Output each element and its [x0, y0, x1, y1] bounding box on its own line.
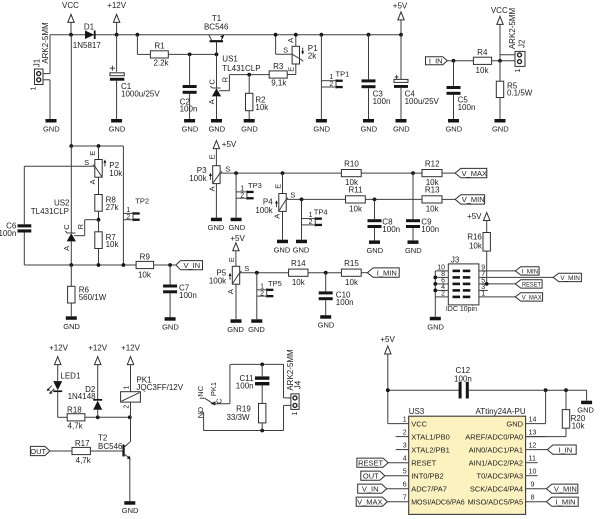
US3 pin 14 GND [506, 417, 536, 429]
junction C5 [452, 59, 456, 63]
ground (T2) [122, 501, 139, 515]
svg-text:1000u/25V: 1000u/25V [121, 89, 160, 98]
svg-text:GND: GND [162, 323, 179, 332]
svg-text:A: A [273, 214, 282, 219]
US3 pin 1 VCC [388, 417, 428, 429]
svg-text:C: C [215, 398, 224, 404]
svg-text:TL431CLP: TL431CLP [31, 207, 69, 216]
svg-text:GND: GND [393, 125, 410, 134]
shunt regulator US2 TL431CLP [31, 146, 99, 265]
resistor R12 10k [422, 159, 455, 187]
svg-text:ARK2-5MM: ARK2-5MM [286, 349, 295, 391]
svg-text:E: E [286, 67, 295, 72]
test point TP4 [302, 199, 328, 239]
wire snubber bottom rail [204, 430, 284, 432]
svg-text:1: 1 [126, 207, 130, 214]
svg-text:PK1: PK1 [209, 382, 218, 396]
ground (C2) [182, 119, 199, 134]
svg-text:100n: 100n [458, 103, 476, 112]
+5V power symbol (P3) [213, 140, 237, 166]
junction TP2 bottom [122, 263, 126, 267]
capacitor C4 100u/25V [394, 35, 440, 119]
potentiometer P3 100k [189, 154, 230, 217]
svg-text:BC546: BC546 [204, 23, 229, 32]
US3 pin 12 AIN0/ADC1/PA1 + I_IN flag [469, 443, 577, 455]
node OUT flag [30, 446, 72, 455]
wire J3 ground bus [434, 271, 436, 317]
svg-text:GND: GND [492, 125, 509, 134]
svg-text:I_MIN: I_MIN [556, 498, 576, 507]
svg-text:AIN0/ADC1/PA1: AIN0/ADC1/PA1 [469, 446, 523, 455]
svg-text:J4: J4 [294, 380, 303, 389]
svg-text:GND: GND [506, 420, 523, 429]
svg-text:A: A [226, 289, 235, 294]
svg-text:10k: 10k [572, 421, 586, 430]
svg-text:A: A [207, 99, 216, 104]
junction C10 [324, 271, 328, 275]
ground (C9) [405, 240, 422, 255]
svg-text:V_MAX: V_MAX [522, 294, 542, 301]
svg-text:100u/25V: 100u/25V [405, 97, 440, 106]
svg-text:6: 6 [403, 482, 407, 489]
junction pin14 wire [544, 388, 548, 392]
ground (J1) [43, 119, 60, 134]
ground (TP3) [228, 218, 245, 233]
VCC power symbol (right) [491, 6, 508, 61]
potentiometer P1 2k [276, 35, 319, 72]
svg-text:TP3: TP3 [248, 181, 262, 190]
svg-text:560/1W: 560/1W [79, 293, 107, 302]
svg-text:10k: 10k [109, 169, 123, 178]
node V_MIN flag (J3) [553, 273, 581, 282]
junction R10/R12/C9 [411, 171, 415, 175]
resistor R2 10k [246, 75, 270, 119]
junction C3 [367, 33, 371, 37]
relay contact PK1 [196, 364, 230, 430]
+5V power symbol (US3) [380, 335, 395, 423]
svg-text:GND: GND [109, 125, 126, 134]
svg-text:1: 1 [403, 417, 407, 424]
ground (P5) [227, 319, 244, 334]
+5V power symbol (R16) [467, 212, 490, 232]
svg-text:T0/ADC3/PA3: T0/ADC3/PA3 [477, 472, 524, 481]
IC US3 ATtiny24A-PU [409, 407, 526, 514]
svg-text:JQC3FF/12V: JQC3FF/12V [136, 383, 183, 392]
svg-text:2: 2 [124, 405, 131, 409]
node V_MIN flag (top) [455, 195, 485, 205]
svg-text:1: 1 [481, 290, 485, 297]
VCC power symbol [62, 1, 79, 35]
svg-text:R11: R11 [348, 186, 363, 195]
ground (R2) [241, 119, 258, 134]
svg-text:A: A [62, 246, 71, 251]
ground (P3) [208, 218, 225, 233]
svg-text:10k: 10k [255, 103, 269, 112]
svg-text:OUT: OUT [30, 447, 46, 456]
svg-text:TP5: TP5 [268, 279, 282, 288]
svg-text:10k: 10k [292, 278, 306, 287]
capacitor C6 100n [0, 166, 31, 265]
wire y146 [71, 145, 123, 147]
svg-text:NO: NO [196, 407, 205, 418]
svg-text:ATtiny24A-PU: ATtiny24A-PU [476, 407, 526, 416]
test point TP2 [123, 197, 149, 222]
resistor R17 4,7k [72, 439, 122, 465]
capacitor C8 100n [368, 199, 401, 240]
connector J2 ARK2-5MM [500, 7, 526, 72]
svg-text:+12V: +12V [49, 344, 69, 353]
potentiometer P4 100k [255, 173, 295, 240]
junction R8/R7/Ref [97, 218, 101, 222]
svg-text:100n: 100n [236, 381, 254, 390]
wire VCC trunk down [70, 35, 72, 146]
svg-text:1: 1 [240, 185, 244, 192]
junction D2 anode [96, 415, 100, 419]
svg-text:XTAL1/PB0: XTAL1/PB0 [411, 433, 450, 442]
junction bus pin8 [433, 276, 437, 280]
junction C8 [373, 198, 377, 202]
svg-text:LED1: LED1 [60, 372, 81, 381]
+12V power symbol (PK1) [121, 344, 141, 392]
junction TP4 [300, 198, 304, 202]
svg-text:I_IN: I_IN [558, 445, 572, 454]
LED LED1 [47, 372, 81, 418]
+12V power symbol (LED1) [49, 344, 69, 381]
transistor T2 BC546 [98, 434, 131, 502]
US3 pin 2 XTAL1/PB0 [396, 430, 450, 442]
svg-text:10k: 10k [138, 270, 152, 279]
resistor R11 10k [346, 186, 423, 214]
wire J4 top feed [284, 364, 293, 398]
US3 pin 5 INT0/PB2 + OUT flag [361, 469, 444, 481]
junction PK1/T2 collector [128, 415, 132, 419]
relay coil PK1 JQC3FF/12V [121, 376, 184, 443]
+12V power symbol (D2) [88, 344, 108, 399]
ground (TP1) [313, 119, 330, 134]
wire TP2 trunk [122, 146, 124, 265]
junction R2 top [247, 73, 251, 77]
svg-text:GND: GND [208, 125, 225, 134]
svg-text:+5V: +5V [380, 335, 395, 344]
svg-text:8: 8 [531, 495, 535, 502]
junction TP1 [320, 33, 324, 37]
svg-text:C: C [62, 224, 71, 230]
ground (C4) [393, 119, 410, 134]
svg-text:GND: GND [228, 223, 245, 232]
svg-text:1N5817: 1N5817 [73, 41, 102, 50]
junction trunk/y146 [69, 144, 73, 148]
svg-text:100n: 100n [180, 105, 198, 114]
node I_IN flag (top) [426, 57, 474, 66]
svg-text:100n: 100n [336, 298, 354, 307]
ground (J3) [427, 317, 444, 332]
svg-text:1: 1 [515, 68, 522, 72]
potentiometer P2 10k [24, 146, 123, 185]
svg-text:R1: R1 [154, 42, 165, 51]
svg-text:13: 13 [529, 430, 537, 437]
svg-text:V_MAX: V_MAX [462, 169, 487, 178]
ground (TP5) [248, 319, 265, 334]
svg-text:C: C [207, 79, 216, 85]
junction bus pin6 [433, 282, 437, 286]
svg-text:BC546: BC546 [98, 442, 123, 451]
svg-text:+5V: +5V [393, 2, 408, 11]
test point TP3 [236, 173, 262, 218]
svg-text:2k: 2k [308, 52, 317, 61]
svg-text:100n: 100n [179, 291, 197, 300]
svg-text:ARK2-5MM: ARK2-5MM [41, 22, 50, 64]
ground (C3) [360, 119, 377, 134]
resistor R18 4,7k [67, 406, 130, 431]
capacitor C10 100n [319, 273, 354, 316]
svg-text:10k: 10k [469, 241, 483, 250]
svg-text:2: 2 [441, 290, 445, 297]
US3 pin 11 AIN1/ADC2/PA2 [469, 456, 538, 468]
US3 pin 10 T0/ADC3/PA3 [477, 469, 538, 481]
capacitor C3 100n [362, 35, 391, 119]
resistor R6 560/1W [68, 265, 107, 316]
svg-text:MOSI/ADC6/PA6: MOSI/ADC6/PA6 [411, 498, 465, 507]
svg-text:R16: R16 [467, 232, 482, 241]
capacitor C7 100n [163, 265, 197, 317]
svg-text:TP2: TP2 [135, 197, 149, 206]
resistor R20 10k [526, 390, 586, 436]
resistor R19 33/3W [226, 403, 265, 430]
svg-text:E: E [88, 151, 97, 156]
svg-text:MISO/ADC5/PA5: MISO/ADC5/PA5 [468, 498, 524, 507]
svg-text:R4: R4 [477, 48, 488, 57]
node V_MAX flag (top) [455, 168, 487, 178]
resistor R5 0,1/5W [496, 61, 532, 119]
ground (TP4) [293, 240, 310, 255]
junction C7 / V_IN [168, 263, 172, 267]
svg-text:+5V: +5V [467, 212, 482, 221]
svg-text:GND: GND [274, 245, 291, 254]
connector J4 ARK2-5MM [286, 349, 303, 415]
resistor R10 10k [341, 159, 422, 187]
svg-text:R19: R19 [236, 404, 251, 413]
resistor R15 10k [341, 259, 367, 287]
diode D2 1N4148 [68, 385, 103, 417]
svg-text:IDC 10pin: IDC 10pin [446, 306, 477, 313]
svg-text:RESET: RESET [522, 281, 541, 288]
resistor R3 9,1k [269, 62, 296, 88]
svg-text:100n: 100n [421, 225, 439, 234]
junction +5V col [386, 388, 390, 392]
node RESET flag (J3) [515, 280, 542, 289]
svg-text:R18: R18 [67, 406, 82, 415]
resistor R4 10k [473, 48, 516, 75]
potentiometer P5 100k [209, 257, 249, 319]
svg-text:R9: R9 [140, 252, 151, 261]
svg-text:ARK2-5MM: ARK2-5MM [508, 7, 517, 49]
svg-text:S: S [290, 191, 295, 200]
svg-text:1: 1 [309, 212, 313, 219]
svg-text:I_MIN: I_MIN [377, 268, 397, 277]
svg-text:J2: J2 [517, 39, 526, 48]
junction TP5 [255, 271, 259, 275]
junction P1 S [274, 33, 278, 37]
svg-text:GND: GND [182, 125, 199, 134]
svg-text:RESET: RESET [358, 459, 383, 468]
wire main +12V rail [50, 34, 401, 36]
svg-text:V_MIN: V_MIN [462, 195, 485, 204]
svg-text:1: 1 [30, 86, 37, 90]
svg-text:I_IN: I_IN [429, 57, 443, 66]
svg-text:11: 11 [529, 456, 536, 463]
ground (C1) [109, 119, 126, 134]
diode D1 [73, 23, 102, 51]
svg-text:+12V: +12V [107, 1, 127, 10]
connector J3 IDC 10pin [446, 255, 479, 313]
svg-text:A: A [208, 186, 217, 191]
svg-text:INT0/PB2: INT0/PB2 [411, 472, 444, 481]
svg-text:33/3W: 33/3W [226, 413, 250, 422]
svg-text:US3: US3 [409, 407, 425, 416]
test point TP5 [257, 273, 282, 320]
svg-text:GND: GND [366, 246, 383, 255]
junction +12V rail [115, 33, 119, 37]
junction US2 anode / R6 [69, 263, 73, 267]
svg-text:10k: 10k [476, 66, 490, 75]
svg-text:E: E [207, 154, 216, 159]
svg-text:GND: GND [248, 325, 265, 334]
ground (C10) [318, 315, 335, 330]
svg-text:OUT: OUT [363, 472, 379, 481]
svg-text:R15: R15 [344, 259, 359, 268]
svg-text:E: E [273, 184, 282, 189]
wire J4 bottom feed [284, 405, 293, 430]
wire +5V rail to C12 [388, 389, 459, 391]
svg-text:RESET: RESET [411, 459, 436, 468]
svg-text:+12V: +12V [88, 344, 108, 353]
resistor R14 10k [289, 259, 342, 287]
svg-text:R14: R14 [291, 259, 306, 268]
ground (C5) [445, 119, 462, 134]
svg-text:AREF/ADC0/PA0: AREF/ADC0/PA0 [465, 433, 523, 442]
svg-text:S: S [244, 264, 249, 273]
svg-text:GND: GND [293, 245, 310, 254]
junction P1 A [294, 33, 298, 37]
+5V power symbol (P5) [230, 234, 245, 266]
svg-text:VCC: VCC [62, 1, 79, 10]
+12V power symbol [107, 1, 127, 35]
junction C11 top [260, 363, 264, 367]
svg-text:2: 2 [403, 430, 407, 437]
svg-text:2: 2 [260, 290, 264, 297]
svg-text:7: 7 [403, 495, 407, 502]
svg-text:V_MAX: V_MAX [357, 498, 382, 507]
svg-text:5: 5 [403, 469, 407, 476]
svg-text:1N4148: 1N4148 [68, 392, 97, 401]
svg-text:100n: 100n [454, 374, 472, 383]
US3 pin 4 RESET + flag [357, 456, 437, 468]
capacitor C11 100n [236, 364, 270, 403]
svg-text:XTAL2/PB1: XTAL2/PB1 [411, 446, 450, 455]
svg-text:GND: GND [405, 246, 422, 255]
junction VCC rail [69, 33, 73, 37]
ground (C8) [366, 240, 383, 255]
junction R16/RESET line [485, 282, 489, 286]
svg-text:TP4: TP4 [314, 208, 328, 217]
svg-text:2.2k: 2.2k [153, 58, 169, 67]
svg-text:2: 2 [240, 192, 244, 199]
US3 pin 9 SCK/ADC4/PA4 + V_MIN flag [470, 482, 578, 494]
capacitor C1 1000u/25V [110, 35, 160, 119]
svg-text:TL431CLP: TL431CLP [222, 64, 260, 73]
svg-text:R12: R12 [425, 159, 440, 168]
transistor T1 BC546 [204, 14, 229, 55]
junction R1 branch [136, 33, 140, 37]
svg-text:100n: 100n [373, 97, 391, 106]
svg-text:12: 12 [529, 443, 537, 450]
junction P4 E [281, 171, 285, 175]
svg-text:S: S [225, 164, 230, 173]
svg-text:R10: R10 [344, 159, 359, 168]
svg-text:3: 3 [403, 443, 407, 450]
capacitor C12 100n [454, 366, 587, 398]
svg-text:R17: R17 [75, 439, 90, 448]
node V_IN flag [176, 261, 203, 270]
svg-text:1: 1 [292, 411, 299, 415]
svg-text:+5V: +5V [230, 234, 245, 243]
node V_MAX flag (J3) [515, 293, 542, 302]
svg-text:NC: NC [196, 385, 205, 396]
svg-text:4: 4 [403, 456, 407, 463]
svg-text:1: 1 [329, 74, 333, 81]
svg-text:27k: 27k [106, 203, 120, 212]
svg-text:10k: 10k [106, 240, 120, 249]
svg-text:V_IN: V_IN [183, 261, 200, 270]
svg-text:10k: 10k [345, 278, 359, 287]
svg-text:10: 10 [529, 469, 537, 476]
J3 right pin stubs [479, 264, 553, 297]
junction bus pin4 [433, 289, 437, 293]
svg-text:GND: GND [241, 125, 258, 134]
wire P4 S line [286, 198, 345, 200]
svg-text:R13: R13 [425, 186, 440, 195]
svg-text:J3: J3 [451, 255, 460, 264]
svg-text:14: 14 [529, 417, 537, 424]
junction T1 base [215, 53, 219, 57]
resistor R16 10k [467, 232, 490, 284]
svg-text:2: 2 [309, 219, 313, 226]
+5V power symbol (top) [393, 2, 408, 35]
ground (top right) [577, 390, 594, 414]
svg-text:I_MIN: I_MIN [522, 268, 539, 275]
junction +5V C4 [399, 33, 403, 37]
US3 pin 7 MOSI/ADC6/PA6 + V_MAX flag [356, 495, 465, 507]
ground (P4) [274, 240, 291, 255]
capacitor C5 100n [447, 61, 476, 119]
svg-text:100k: 100k [209, 277, 227, 286]
svg-text:+5V: +5V [222, 140, 237, 149]
ground (R6) [63, 316, 80, 331]
svg-text:S: S [283, 46, 288, 55]
connector J1 ARK2-5MM [30, 22, 50, 119]
svg-text:D1: D1 [84, 23, 95, 32]
svg-text:VCC: VCC [491, 6, 508, 15]
svg-text:9: 9 [531, 482, 535, 489]
svg-text:2: 2 [126, 214, 130, 221]
svg-text:100n: 100n [382, 225, 400, 234]
svg-text:SCK/ADC4/PA4: SCK/ADC4/PA4 [470, 485, 523, 494]
op-amp U1 shunt regulator US1 TL431CLP [207, 54, 269, 119]
ground (R5) [492, 119, 509, 134]
svg-text:4,7k: 4,7k [76, 456, 92, 465]
US3 pin 13 AREF/ADC0/PA0 [465, 430, 545, 442]
svg-text:9,1k: 9,1k [271, 79, 287, 88]
